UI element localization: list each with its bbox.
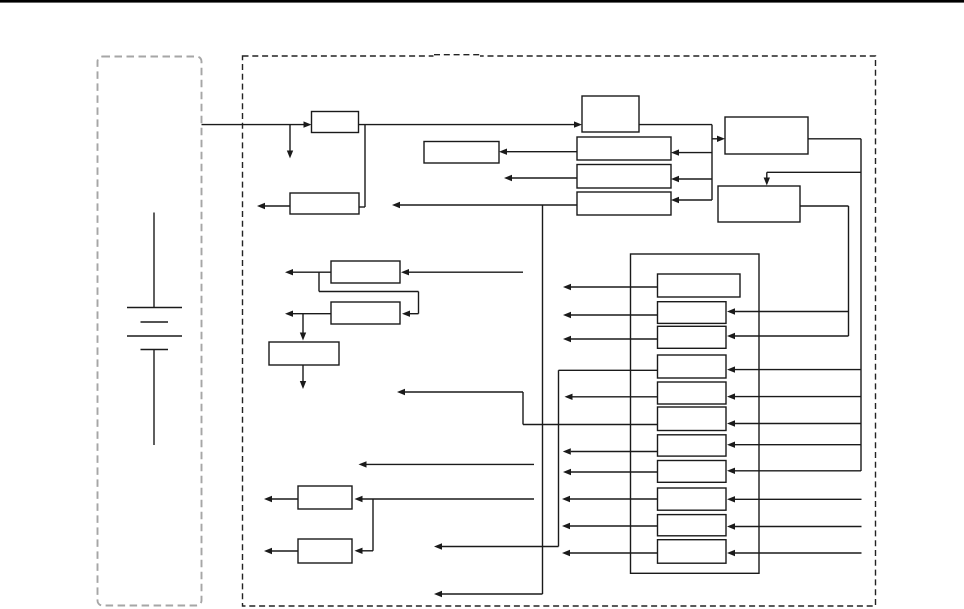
wire M1 branch to M2 — [319, 272, 419, 317]
wire arrow left on mid net — [397, 389, 523, 395]
wire U3 to right vertical bus — [808, 139, 861, 471]
wire arrow into register R3 — [727, 333, 849, 339]
wire arrow out of register R2 — [563, 312, 658, 318]
wire arrow into block U3 — [712, 136, 725, 142]
register bank enclosure — [631, 254, 760, 573]
wire arrow into block C — [671, 197, 712, 203]
wire arrow out of register R5 — [565, 394, 658, 400]
wire arrow into register R5 — [727, 393, 861, 399]
wire block A to block D — [499, 149, 577, 155]
wire M2 branch down into M3 — [300, 314, 306, 341]
wire arrow into block A — [671, 149, 712, 155]
wire arrow out of register R7 — [563, 448, 658, 454]
block L1 (driver 1) — [298, 486, 352, 509]
wire arrow into register R4 — [727, 366, 861, 372]
block M3 (monitor) — [269, 342, 339, 365]
top page rule bar — [0, 0, 964, 3]
wire arrow into block U5 top — [764, 172, 861, 185]
wire feed to block U4 — [359, 125, 365, 207]
wire stub arrow down from battery rail — [287, 125, 293, 159]
block D (output filter) — [424, 142, 499, 164]
wire feed into block M1 — [401, 269, 523, 275]
wire arrow down out of block M3 — [300, 365, 306, 389]
block M2 (LDO 2) — [331, 302, 400, 324]
register R1 — [658, 274, 741, 297]
register R7 — [658, 435, 727, 456]
wire arrow into block B — [671, 176, 712, 182]
register R5 — [658, 382, 727, 404]
wire arrow into register R10 — [727, 523, 862, 529]
register R4 — [658, 355, 727, 378]
block C (regulator 3) — [577, 192, 671, 215]
block M1 (LDO 1) — [331, 261, 400, 283]
block A (regulator 1) — [577, 137, 671, 160]
block L2 (driver 2) — [298, 539, 352, 563]
wire feed into block L1 — [355, 496, 535, 502]
wire arrow into register R9 — [727, 496, 862, 502]
wire register R4 to mid bus — [559, 369, 658, 371]
wire arrow out of register R3 — [563, 336, 658, 342]
wire arrow out of block M1 — [285, 269, 331, 275]
wire L1 branch to L2 — [355, 499, 374, 554]
wire arrow left at lower mid — [434, 543, 559, 549]
wire arrow out of block B — [504, 175, 577, 181]
wire U1 to block U2 — [359, 121, 583, 127]
wire arrow out of register R10 — [562, 523, 658, 529]
block U3 (controller) — [725, 117, 808, 154]
wire arrow out of register R11 — [562, 550, 658, 556]
wire arrow out of register R1 — [563, 284, 658, 290]
wire arrow out of block C — [392, 202, 577, 208]
main system enclosure (black dashed) — [243, 56, 876, 606]
wire arrow into register R7 — [727, 442, 861, 448]
wire arrow left upper-low region — [359, 461, 535, 467]
wire arrow out of block U4 — [257, 203, 290, 209]
register R8 — [658, 461, 727, 483]
block U4 (sense) — [290, 193, 359, 214]
wire battery output to block U1 — [202, 121, 312, 127]
register R2 — [658, 302, 727, 324]
battery enclosure (gray dashed) — [98, 57, 202, 606]
wire register R6 long feed — [523, 424, 658, 426]
block U2 (charger) — [582, 96, 639, 132]
register R9 — [658, 488, 727, 510]
wire arrow out of block L2 — [264, 548, 298, 554]
register R10 — [658, 515, 727, 536]
wire arrow into register R6 — [727, 420, 861, 426]
wire arrow out of block M2 — [285, 311, 331, 317]
block U1 (input switch) — [312, 112, 359, 133]
wire mid net vertical — [558, 370, 560, 546]
wire arrow into register R11 — [727, 550, 862, 556]
main enclosure top border jog segment — [434, 55, 481, 58]
register R6 — [658, 407, 727, 431]
register R11 — [658, 540, 727, 564]
block U5 (sequencer) — [718, 186, 800, 222]
wire mid net riser — [522, 392, 524, 425]
wire arrow out of block L1 — [264, 496, 298, 502]
wire arrow out of register R8 — [563, 469, 658, 475]
wire center vertical bus — [542, 205, 544, 594]
wire arrow into register R8 — [727, 468, 861, 474]
wire U2 output bus to right — [639, 125, 712, 200]
wire arrow out of register R9 — [562, 496, 658, 502]
battery BT1 — [127, 213, 182, 446]
wire U5 to inner vertical bus — [800, 206, 849, 336]
register R3 — [658, 326, 727, 348]
wire arrow left at bottom of center bus — [434, 591, 543, 597]
wire arrow into register R2 — [727, 308, 849, 314]
block B (regulator 2) — [577, 165, 671, 189]
